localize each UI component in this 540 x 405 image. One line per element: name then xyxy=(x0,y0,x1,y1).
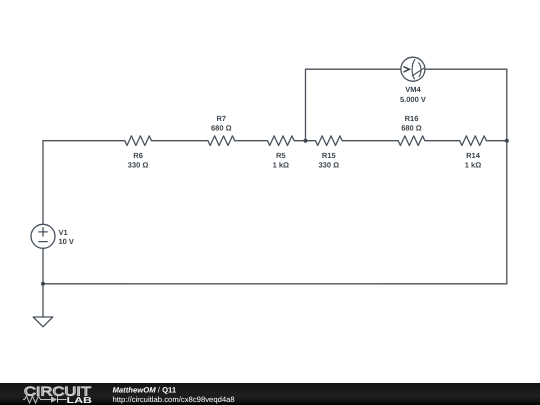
svg-text:1 kΩ: 1 kΩ xyxy=(465,161,481,170)
svg-text:330 Ω: 330 Ω xyxy=(128,161,149,170)
svg-text:http://circuitlab.com/cx8c98ve: http://circuitlab.com/cx8c98veqd4a8 xyxy=(113,395,235,404)
svg-text:5.000 V: 5.000 V xyxy=(400,95,426,104)
svg-text:R16: R16 xyxy=(405,114,419,123)
svg-text:LAB: LAB xyxy=(67,395,93,405)
svg-text:10 V: 10 V xyxy=(59,237,74,246)
svg-text:R5: R5 xyxy=(276,151,286,160)
svg-text:330 Ω: 330 Ω xyxy=(318,161,339,170)
svg-text:VM4: VM4 xyxy=(405,85,421,94)
svg-text:R15: R15 xyxy=(322,151,336,160)
svg-text:1 kΩ: 1 kΩ xyxy=(273,161,289,170)
svg-text:MatthewOM / Q11: MatthewOM / Q11 xyxy=(113,385,177,394)
svg-text:V1: V1 xyxy=(59,228,68,237)
svg-text:R6: R6 xyxy=(133,151,143,160)
svg-text:680 Ω: 680 Ω xyxy=(401,124,422,133)
svg-text:680 Ω: 680 Ω xyxy=(211,124,232,133)
svg-text:R7: R7 xyxy=(217,114,227,123)
svg-text:R14: R14 xyxy=(466,151,481,160)
